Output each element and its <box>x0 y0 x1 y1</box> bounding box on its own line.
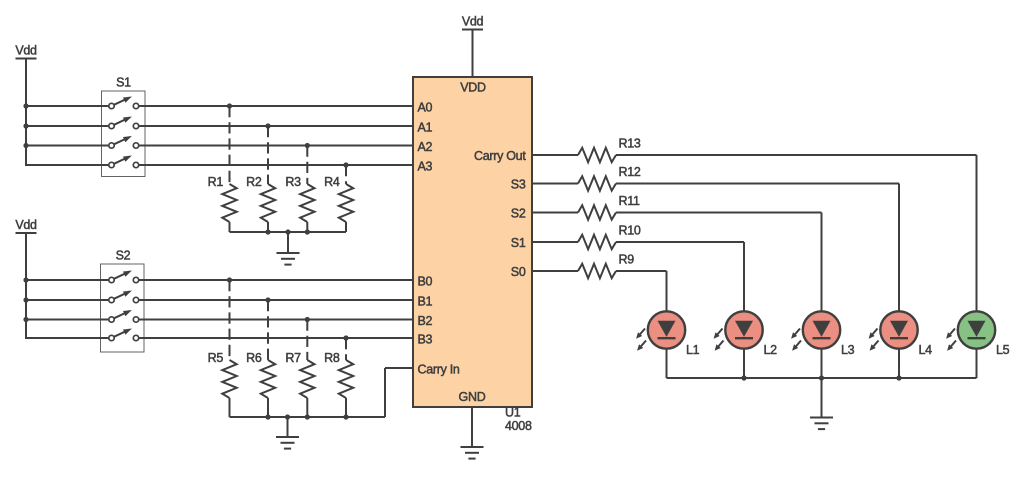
svg-text:B2: B2 <box>418 314 433 328</box>
svg-text:R9: R9 <box>619 253 635 267</box>
svg-text:Vdd: Vdd <box>15 218 37 232</box>
svg-text:S0: S0 <box>511 265 526 279</box>
svg-text:S2: S2 <box>116 249 131 263</box>
svg-text:R5: R5 <box>208 351 224 365</box>
svg-text:S1: S1 <box>511 236 526 250</box>
svg-text:VDD: VDD <box>460 81 486 95</box>
svg-text:L5: L5 <box>996 343 1010 357</box>
svg-text:A3: A3 <box>418 159 433 173</box>
svg-text:R13: R13 <box>619 137 641 151</box>
svg-text:R1: R1 <box>208 175 224 189</box>
svg-text:GND: GND <box>459 390 486 404</box>
svg-text:A1: A1 <box>418 120 433 134</box>
svg-text:B1: B1 <box>418 294 433 308</box>
svg-text:S1: S1 <box>116 76 131 90</box>
svg-text:R7: R7 <box>285 351 301 365</box>
svg-text:R11: R11 <box>619 194 640 208</box>
svg-text:A0: A0 <box>418 100 433 114</box>
svg-text:Vdd: Vdd <box>462 15 484 29</box>
svg-text:U1: U1 <box>505 406 521 420</box>
svg-text:S3: S3 <box>511 178 526 192</box>
svg-text:R6: R6 <box>246 351 262 365</box>
svg-text:B0: B0 <box>418 274 433 288</box>
svg-text:4008: 4008 <box>505 419 532 433</box>
svg-text:Carry In: Carry In <box>418 362 460 376</box>
svg-text:S2: S2 <box>511 207 526 221</box>
svg-text:A2: A2 <box>418 140 433 154</box>
svg-text:R10: R10 <box>619 224 641 238</box>
svg-text:L2: L2 <box>764 343 778 357</box>
svg-text:R12: R12 <box>619 165 641 179</box>
svg-text:R3: R3 <box>285 175 301 189</box>
svg-text:L1: L1 <box>686 343 700 357</box>
svg-text:R4: R4 <box>324 175 340 189</box>
svg-text:R8: R8 <box>324 351 340 365</box>
svg-text:L3: L3 <box>841 343 855 357</box>
svg-text:R2: R2 <box>246 175 262 189</box>
svg-text:Carry Out: Carry Out <box>474 149 526 163</box>
svg-text:L4: L4 <box>919 343 933 357</box>
svg-text:Vdd: Vdd <box>15 44 37 58</box>
svg-text:B3: B3 <box>418 332 433 346</box>
